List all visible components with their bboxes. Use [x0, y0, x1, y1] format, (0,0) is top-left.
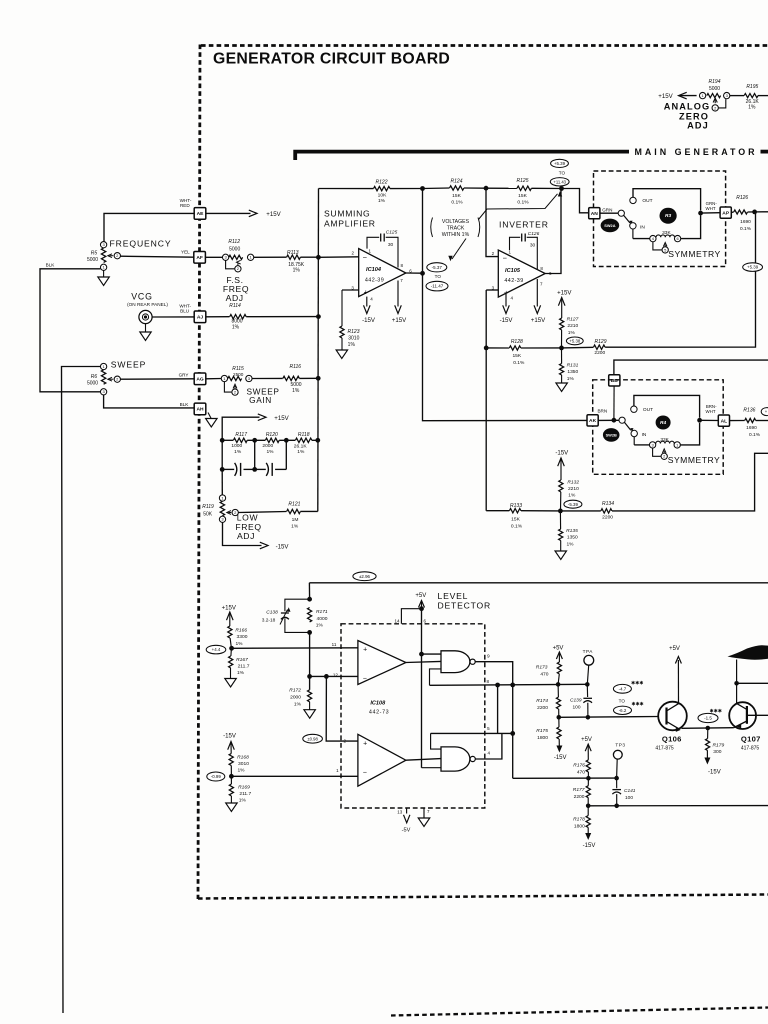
wire — [390, 188, 423, 190]
wire VCG to AJ (WHT-BLU) — [152, 316, 194, 318]
svg-text:15K: 15K — [511, 517, 520, 523]
resistor R120 2000 — [265, 438, 279, 442]
junction — [510, 731, 515, 736]
resistor R171 4000 — [308, 608, 312, 622]
svg-text:-15V: -15V — [223, 732, 237, 739]
svg-text:GAIN: GAIN — [249, 395, 272, 405]
resistor R166 3300 — [228, 626, 232, 638]
resistor R135 1350 to ground — [559, 511, 561, 529]
switch OUT contact — [631, 406, 637, 412]
wire — [531, 187, 561, 189]
NAND B output wire up to pin5 line — [475, 733, 502, 759]
NAND A output wire — [475, 662, 513, 779]
pot 33K winding — [656, 441, 674, 443]
junction — [734, 681, 739, 686]
svg-text:+5.39: +5.39 — [747, 265, 759, 270]
svg-text:417-875: 417-875 — [655, 745, 674, 751]
svg-text:SW2B: SW2B — [606, 432, 617, 437]
junction — [484, 346, 489, 351]
svg-text:−: − — [503, 254, 508, 263]
NAND B feedback input — [431, 733, 441, 749]
potentiometer R194 5000 — [707, 94, 721, 98]
svg-text:AH: AH — [196, 407, 204, 413]
potentiometer R194 terminal 1 — [699, 92, 705, 98]
svg-text:DETECTOR: DETECTOR — [438, 601, 492, 611]
wire BB down to AK node — [613, 386, 615, 420]
svg-text:R173: R173 — [536, 665, 548, 671]
op-amp IC104 442-39 — [359, 249, 406, 297]
svg-text:AE: AE — [197, 211, 205, 217]
svg-text:-15V: -15V — [554, 755, 567, 761]
symmetry block 1 dashed box — [594, 171, 726, 267]
svg-text:R5: R5 — [91, 251, 98, 257]
cut-off callout at page edge — [761, 408, 768, 416]
svg-text:R118: R118 — [298, 432, 310, 438]
pin 7 to ground — [423, 808, 425, 818]
pin 13 to -5V — [406, 808, 408, 814]
potentiometer R6 5000 — [101, 370, 105, 384]
junction — [419, 652, 424, 657]
svg-text:0.1%: 0.1% — [517, 200, 529, 206]
resistor R168 3010 — [229, 754, 233, 766]
wire pot to node — [680, 423, 699, 445]
svg-text:AK: AK — [589, 418, 597, 424]
junction — [307, 674, 312, 679]
svg-text:3010: 3010 — [348, 336, 359, 342]
svg-text:−: − — [363, 253, 368, 262]
wire — [730, 95, 744, 97]
switch label SW2B — [603, 428, 620, 442]
wire AL to R136 — [730, 420, 745, 422]
svg-text:SWEEP: SWEEP — [111, 360, 147, 370]
svg-text:BLK: BLK — [180, 402, 190, 407]
svg-text:+5V: +5V — [553, 645, 564, 651]
next board outline: bottom-right dashed line — [391, 1008, 768, 1016]
wire to R124 — [423, 187, 450, 190]
svg-text:100: 100 — [625, 795, 633, 801]
svg-text:417-875: 417-875 — [741, 746, 760, 752]
junction — [229, 774, 234, 779]
junction — [614, 776, 619, 781]
connector box AP — [720, 207, 731, 218]
pot terminal 1 — [674, 442, 680, 448]
wire AE left down to R5 — [104, 213, 194, 241]
svg-text:TPA: TPA — [583, 649, 594, 654]
svg-text:+15V: +15V — [274, 415, 289, 422]
svg-text:AG: AG — [196, 377, 204, 383]
connector box AF — [194, 252, 206, 264]
potentiometer R119 terminal 1 — [219, 495, 225, 501]
svg-text:LEVEL: LEVEL — [438, 591, 469, 601]
svg-text:470: 470 — [540, 672, 548, 678]
resistor R173 470 — [557, 662, 561, 674]
svg-text:±0.98: ±0.98 — [307, 736, 318, 741]
feedback wire pin 5 — [431, 732, 513, 734]
svg-text:2200: 2200 — [602, 514, 613, 520]
R112 wiper terminal 2 — [226, 261, 235, 269]
svg-text:1%: 1% — [316, 622, 324, 628]
svg-text:R3: R3 — [665, 213, 671, 219]
svg-text:R133: R133 — [510, 503, 522, 509]
junction — [558, 509, 563, 514]
svg-text:-15V: -15V — [708, 769, 721, 775]
connector AE wire to +15V — [206, 212, 251, 214]
svg-text:+15V: +15V — [531, 317, 546, 324]
pot wiper terminal 5 — [653, 242, 662, 250]
svg-text:R125: R125 — [517, 178, 529, 184]
svg-text:INVERTER: INVERTER — [499, 219, 549, 229]
ground at R5 — [103, 271, 105, 278]
svg-text:2000: 2000 — [262, 443, 273, 449]
wire — [247, 439, 265, 441]
svg-text:SYMMETRY: SYMMETRY — [668, 249, 721, 259]
svg-text:C138: C138 — [266, 609, 278, 615]
wire IN down to pot R3 — [632, 229, 634, 239]
connector box AK — [587, 415, 598, 426]
wire R112 to R113 — [254, 256, 287, 258]
svg-text:-5.39: -5.39 — [568, 502, 579, 507]
junction — [586, 776, 591, 781]
svg-text:1%: 1% — [348, 342, 356, 348]
svg-text:2500: 2500 — [233, 372, 244, 377]
vertical wire R171 down to R172 — [309, 632, 311, 689]
svg-text:MAIN GENERATOR: MAIN GENERATOR — [635, 147, 758, 157]
svg-text:TRACK: TRACK — [447, 226, 465, 232]
R194 wiper arrow and terminal 2 — [714, 99, 716, 103]
junction — [307, 597, 312, 602]
IC105 +input wire from R128 node — [486, 289, 498, 291]
svg-text:1%: 1% — [237, 670, 245, 676]
junction — [557, 715, 562, 720]
svg-text:470: 470 — [577, 770, 585, 776]
resistor R167 211.7 to ground — [230, 648, 233, 656]
wire NAND node to TP3 node — [513, 777, 617, 779]
board outline: top dashed border — [201, 44, 768, 47]
resistor R136 1690 — [745, 418, 756, 422]
svg-text:12: 12 — [333, 673, 339, 678]
svg-text:1%: 1% — [232, 324, 240, 330]
svg-text:ADJ: ADJ — [226, 293, 244, 303]
left vertical bus wire — [317, 189, 320, 512]
svg-text:Q106: Q106 — [662, 734, 682, 743]
wire R117 row — [222, 439, 233, 441]
svg-text:15K: 15K — [518, 193, 527, 199]
wire down to R119 — [221, 469, 223, 494]
wire bus to R122 — [319, 188, 374, 190]
svg-text:2210: 2210 — [568, 486, 579, 492]
svg-text:-15V: -15V — [555, 450, 569, 457]
svg-text:C139: C139 — [570, 697, 582, 703]
callout +-0.98 — [303, 734, 323, 743]
wire — [279, 439, 295, 441]
svg-text:+15V: +15V — [392, 317, 407, 324]
wire R121 to bus — [300, 510, 317, 512]
junction — [697, 418, 702, 423]
svg-text:R129: R129 — [595, 339, 607, 345]
svg-text:TO: TO — [619, 698, 626, 703]
svg-text:2200: 2200 — [594, 350, 605, 356]
svg-text:0.1%: 0.1% — [749, 432, 761, 438]
ink blob artifact — [728, 645, 768, 660]
svg-text:R172: R172 — [289, 687, 301, 693]
R5 terminal 1 — [100, 264, 106, 270]
capacitor C (right) — [255, 468, 266, 470]
connector box AJ — [194, 311, 206, 323]
vertical wire pin3 node down to R133 row — [485, 348, 487, 511]
capacitor C139 100 — [586, 684, 588, 697]
svg-text:IC105: IC105 — [505, 268, 521, 274]
capacitor row verticals — [221, 440, 223, 469]
svg-text:R195: R195 — [746, 84, 758, 90]
svg-text:R132: R132 — [567, 479, 579, 485]
connector box AN — [589, 208, 600, 219]
wire R115 to R116 — [252, 377, 283, 379]
wire to comparator pin 1 — [231, 775, 358, 777]
svg-text:R169: R169 — [238, 785, 250, 791]
svg-text:3010: 3010 — [238, 761, 249, 767]
svg-text:1%: 1% — [235, 641, 243, 647]
connector box BB — [609, 375, 620, 386]
wire to R134 — [560, 510, 600, 512]
junction — [706, 726, 711, 731]
svg-text:1690: 1690 — [740, 219, 751, 225]
base wire to Q106 — [559, 716, 659, 719]
svg-text:11: 11 — [332, 642, 337, 647]
junction — [316, 376, 321, 381]
svg-text:-15V: -15V — [362, 317, 376, 324]
resistor R175 1800 to -15V — [558, 717, 560, 727]
svg-text:1%: 1% — [239, 798, 247, 804]
svg-text:R114: R114 — [229, 303, 241, 309]
R6 terminal 3 — [100, 389, 106, 395]
svg-text:R135: R135 — [566, 528, 578, 534]
svg-text:1800: 1800 — [574, 824, 585, 830]
svg-text:R177: R177 — [573, 787, 585, 793]
transistor Q107 417-875 — [729, 702, 756, 729]
svg-text:2000: 2000 — [290, 695, 301, 701]
wire R133 row — [486, 510, 509, 512]
wire node to AN connector — [562, 189, 589, 213]
IC105 +15V pin 7 — [536, 279, 538, 307]
svg-text:2210: 2210 — [567, 323, 578, 329]
svg-text:-0.99: -0.99 — [211, 774, 222, 779]
svg-text:-5V: -5V — [402, 828, 411, 834]
pot 33K winding — [656, 235, 674, 237]
svg-text:R127: R127 — [567, 317, 579, 323]
switch SW2A contact — [618, 210, 624, 216]
capacitor C (left) — [222, 468, 234, 470]
callout -0.99 — [207, 772, 225, 781]
svg-text:1000: 1000 — [231, 443, 242, 449]
svg-text:R116: R116 — [290, 364, 302, 370]
junction — [586, 804, 591, 809]
op-amp IC105 442-39 — [498, 250, 545, 297]
trimmer capacitor C138 3.2-18 — [285, 599, 310, 611]
IC104 +input wire — [342, 289, 359, 291]
svg-text:300: 300 — [713, 749, 721, 755]
svg-text:R113: R113 — [287, 250, 299, 256]
switch label SW2A — [601, 219, 620, 233]
connector box AH — [194, 403, 206, 415]
svg-text:1%: 1% — [568, 330, 576, 336]
svg-text:YEL: YEL — [181, 249, 190, 254]
resistor R174 2200 — [557, 684, 559, 697]
svg-text:R117: R117 — [235, 432, 247, 438]
svg-text:-15V: -15V — [500, 317, 514, 324]
junction — [752, 210, 757, 215]
svg-text:30: 30 — [530, 243, 536, 249]
wire AJ to R114 — [206, 316, 230, 318]
resistor R133 15K — [509, 509, 520, 513]
svg-text:BLU: BLU — [180, 308, 189, 313]
svg-text:+5V: +5V — [415, 593, 426, 599]
svg-text:AP: AP — [722, 210, 730, 216]
svg-text:R175: R175 — [536, 728, 548, 734]
svg-text:1%: 1% — [748, 105, 756, 111]
emitter wire Q106 to Q107 — [682, 727, 734, 730]
potentiometer R115 terminal 1 — [221, 375, 227, 381]
wire IC105 -input from node — [486, 188, 498, 256]
svg-text:WHT: WHT — [706, 206, 716, 211]
switch arm — [624, 215, 630, 223]
svg-text:BLK: BLK — [46, 263, 56, 268]
NAND A top input wire — [422, 653, 442, 655]
junction — [612, 418, 617, 423]
wire R113 to bus — [300, 256, 318, 258]
wire to comparator pin 12 — [310, 675, 358, 677]
svg-text:1690: 1690 — [746, 425, 757, 431]
svg-text:(ON REAR PANEL): (ON REAR PANEL) — [127, 302, 168, 307]
wire R116 to node — [299, 377, 318, 379]
callout -5.39 — [564, 500, 582, 508]
svg-text:-6.2: -6.2 — [619, 708, 627, 713]
svg-text:RED: RED — [180, 203, 190, 208]
svg-text:Q107: Q107 — [741, 735, 761, 744]
junction — [698, 211, 703, 216]
svg-text:+15V: +15V — [222, 604, 237, 611]
svg-text:1%: 1% — [266, 449, 274, 455]
junction — [229, 646, 234, 651]
R119 terminal 3 — [219, 516, 225, 522]
svg-text:+5V: +5V — [581, 737, 592, 743]
svg-text:15K: 15K — [512, 353, 521, 359]
svg-text:0.1%: 0.1% — [513, 360, 525, 366]
svg-text:33K: 33K — [660, 437, 669, 443]
+15V arrow feed — [222, 417, 259, 440]
ground at VCG — [145, 324, 147, 332]
svg-text:5000: 5000 — [229, 247, 240, 253]
resistor R116 5000 — [283, 376, 299, 380]
svg-text:R120: R120 — [266, 432, 278, 438]
svg-text:-5.37: -5.37 — [432, 265, 443, 270]
svg-text:+5.39: +5.39 — [554, 161, 566, 166]
svg-text:LOW: LOW — [237, 512, 259, 522]
svg-text:0.1%: 0.1% — [451, 200, 463, 206]
svg-text:4000: 4000 — [317, 616, 328, 622]
ground at AH — [208, 413, 211, 419]
junction — [420, 186, 425, 191]
svg-text:R167: R167 — [236, 657, 248, 663]
resistor R172 2000 to ground — [308, 690, 312, 702]
junction — [495, 683, 500, 688]
junction — [316, 255, 321, 260]
wire OUT up and over to node — [634, 395, 700, 417]
svg-text:R4: R4 — [660, 420, 666, 426]
resistor R118 26.1K — [295, 438, 311, 442]
wire to page edge — [758, 95, 768, 97]
R5 wiper terminal 2 — [114, 253, 120, 259]
MAIN GENERATOR heavy rule left segment — [295, 152, 629, 160]
pot wiper terminal 2 — [653, 448, 661, 456]
wire to R129 — [562, 346, 594, 349]
svg-text:33K: 33K — [662, 230, 671, 236]
svg-text:−: − — [363, 676, 367, 683]
NAND B bottom input — [422, 767, 442, 769]
svg-text:-15V: -15V — [276, 543, 290, 550]
junction — [307, 630, 312, 635]
switch arm — [625, 422, 631, 430]
wire IC104 -input — [318, 256, 358, 259]
cross wire down to lower feedback — [497, 685, 499, 733]
svg-text:ADJ: ADJ — [687, 120, 709, 130]
IC108 dashed box — [341, 624, 485, 808]
svg-text:TO: TO — [559, 171, 566, 176]
svg-text:R171: R171 — [316, 609, 328, 615]
wire to page edge — [756, 420, 768, 422]
junction — [585, 682, 590, 687]
svg-text:R115: R115 — [232, 366, 244, 372]
svg-text:211.7: 211.7 — [238, 664, 250, 670]
svg-text:1%: 1% — [294, 702, 302, 708]
pin 6 vertical wire inside IC108 — [421, 609, 423, 768]
wire to R125 — [486, 187, 517, 189]
potentiometer R112 5000 — [229, 255, 243, 259]
wire — [312, 439, 318, 441]
svg-text:442-73: 442-73 — [369, 709, 389, 715]
switch OUT contact — [630, 197, 636, 203]
wire pin12 node down to pin 2 — [326, 676, 358, 741]
long wire with +-2.96 callout — [309, 582, 768, 584]
svg-text:1%: 1% — [293, 268, 301, 274]
connector box AE — [194, 208, 206, 220]
pot terminal 4 — [650, 235, 656, 241]
junction — [315, 438, 320, 443]
svg-text:1%: 1% — [566, 541, 574, 547]
svg-text:1%: 1% — [378, 198, 386, 204]
comparator B output wire — [406, 759, 441, 761]
IC105 output wire up to node — [545, 189, 561, 274]
svg-text:R134: R134 — [602, 501, 614, 507]
svg-text:-15V: -15V — [583, 843, 596, 849]
svg-text:BRN: BRN — [597, 408, 607, 413]
R115 terminal 3 — [246, 375, 252, 381]
svg-text:1800: 1800 — [537, 735, 548, 741]
symmetry block 2 dashed box — [593, 380, 724, 475]
wire — [521, 510, 560, 512]
resistor R123 3010 to ground — [341, 290, 343, 326]
wire AF to R112 — [206, 256, 223, 258]
wire IN down to pot R4 — [633, 437, 635, 445]
svg-text:30: 30 — [388, 242, 394, 248]
wire pot to node — [681, 216, 701, 239]
wire node to AL — [700, 419, 719, 421]
wire to comparator pin 11 — [232, 647, 358, 650]
R112 terminal 1 — [247, 254, 253, 260]
svg-text:+: + — [363, 740, 367, 747]
junction — [510, 683, 515, 688]
svg-text:+15V: +15V — [658, 93, 673, 100]
svg-text:1M: 1M — [292, 517, 299, 523]
